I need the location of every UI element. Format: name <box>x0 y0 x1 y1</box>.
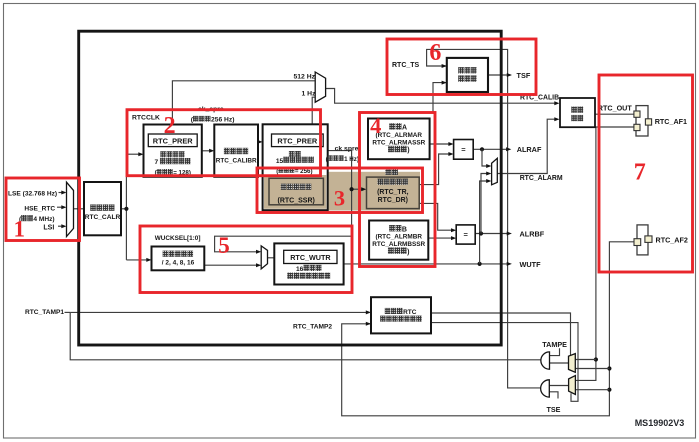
label calendar <box>385 169 391 176</box>
wire RTC_AF1 pin to tamper detectors <box>575 127 634 380</box>
wire TAMPE enable stub <box>550 348 560 355</box>
wire wakeup mux to RTC_WUTR <box>268 257 282 259</box>
svg-text:RTC_ALRMASSR: RTC_ALRMASSR <box>372 139 425 146</box>
wire TAMPE detector output 1 <box>575 359 596 361</box>
red annotation box 2 prescalers <box>127 110 321 176</box>
node ALRBF junction <box>479 231 483 235</box>
wire LSI input arrow <box>58 225 64 227</box>
wire wakeup prescaler to wakeup mux <box>204 264 258 266</box>
wire HSE_RTC input arrow <box>57 206 64 208</box>
red annotation box 3 shadow registers <box>257 168 423 213</box>
TSE gate <box>541 380 550 397</box>
svg-text:(RTC_SSR): (RTC_SSR) <box>278 198 315 205</box>
svg-text:RTC_TS: RTC_TS <box>392 62 420 69</box>
wire 1 Hz tap from sync prescaler <box>312 97 314 124</box>
svg-text:(RTC_TR,: (RTC_TR, <box>377 189 408 196</box>
svg-text:RTC_CALIBR: RTC_CALIBR <box>216 158 257 165</box>
svg-text:RTC_ALARM: RTC_ALARM <box>520 175 563 182</box>
svg-text:2: 2 <box>164 113 176 139</box>
wire coarse calibration to sync prescaler <box>258 141 260 143</box>
svg-text:5: 5 <box>218 233 230 258</box>
wire WUTF flag output <box>344 263 510 265</box>
wire backup registers to TAMPE edge detector <box>431 313 571 356</box>
svg-text:4: 4 <box>370 113 381 138</box>
wire RTC_CALR output RTCCLK distribution <box>121 208 126 210</box>
TAMPE gate <box>541 352 550 369</box>
calendar shadow registers RTC_TR RTC_DR box <box>367 177 420 209</box>
svg-text:=: = <box>461 145 466 154</box>
wire TSE gate output to edge detector <box>549 385 568 387</box>
wire ck_spre distribution <box>215 151 352 252</box>
wire TSF flag output <box>488 74 511 76</box>
clock source mux <box>67 182 74 236</box>
svg-text:RTC_WUTR: RTC_WUTR <box>290 253 331 262</box>
wire TAMPE gate output to edge detector <box>550 362 569 364</box>
svg-text:WUTF: WUTF <box>520 260 542 269</box>
alarm output mux <box>492 158 498 185</box>
svg-text:1 Hz: 1 Hz <box>302 90 317 97</box>
wire RTC_OUT from output control to RTC_AF1 pin <box>595 113 635 115</box>
wire comparator A output ALRAF <box>473 148 509 150</box>
wakeup mux <box>261 246 267 269</box>
pin RTC_AF2 <box>637 225 648 255</box>
node ALRAF junction <box>480 147 484 151</box>
svg-text:LSE (32.768 Hz): LSE (32.768 Hz) <box>8 190 57 197</box>
wire LSE input arrow <box>59 192 65 194</box>
svg-text:(RTC_ALRMAR: (RTC_ALRMAR <box>376 132 423 139</box>
comparator B <box>456 225 475 244</box>
svg-text:A: A <box>402 125 407 132</box>
wire TSE detector output 2 <box>575 389 609 391</box>
svg-text:TSF: TSF <box>517 71 531 80</box>
timestamp register box <box>447 58 488 92</box>
TSE edge detector mux <box>569 376 576 395</box>
svg-text:RTC_AF1: RTC_AF1 <box>655 117 687 126</box>
svg-text:ck spre: ck spre <box>335 145 359 152</box>
wakeup auto-reload RTC_WUTR box <box>274 243 343 284</box>
wire WUTF to alarm output mux <box>480 181 490 264</box>
wire ALRBF to alarm output mux <box>481 174 489 234</box>
wire RTC_CALIB from calib mux to output control <box>326 89 557 104</box>
svg-text:(RTC_ALRMBR: (RTC_ALRMBR <box>375 234 422 241</box>
wire async prescaler to coarse calibration <box>202 150 212 152</box>
wire 512 Hz tap from async prescaler <box>172 81 314 125</box>
alarm B registers box <box>369 221 428 260</box>
wire TSE enable stub <box>549 392 558 399</box>
sync prescaler box <box>263 124 328 210</box>
svg-text:RTC: RTC <box>403 309 417 316</box>
svg-text:RTC_TAMP1: RTC_TAMP1 <box>25 309 64 316</box>
wire RTC_TAMP2 path <box>342 242 635 416</box>
svg-text:6: 6 <box>429 40 441 66</box>
calib output mux 512Hz/1Hz <box>315 72 325 102</box>
node junction on RTC_AF2 line at TSE detector output <box>607 388 611 392</box>
red annotation box 5 wakeup <box>140 226 352 293</box>
node junction on RTC_AF2 line at TAMPE detector output <box>607 366 611 370</box>
node junction tamper line at TAMPE detector output <box>594 357 598 361</box>
svg-text:1 Hz): 1 Hz) <box>344 156 359 163</box>
async prescaler box <box>144 125 202 177</box>
wire ALRAF to alarm output mux <box>482 149 489 166</box>
wire clock mux to RTC_CALR <box>74 208 85 210</box>
svg-text:3: 3 <box>334 185 345 210</box>
TAMPE edge detector mux <box>569 354 576 373</box>
svg-text:ALRBF: ALRBF <box>520 230 545 239</box>
shadow register RTC_SSR box <box>269 178 323 205</box>
wire RTC_TAMP1 into backup registers <box>70 311 368 313</box>
wire calendar to comparator A <box>419 154 451 185</box>
svg-text:ALRAF: ALRAF <box>517 145 542 154</box>
svg-text:MS19902V3: MS19902V3 <box>635 418 685 428</box>
svg-text:1: 1 <box>14 217 26 242</box>
RTC block thick border <box>79 31 502 345</box>
wire RTC_TS / timestamp input <box>427 49 541 388</box>
wire calendar to comparator B <box>419 203 454 230</box>
svg-text:TSE: TSE <box>547 405 561 414</box>
coarse calibration RTC_CALIBR box <box>214 125 258 177</box>
output control box <box>560 98 595 127</box>
svg-text:RTC_TAMP2: RTC_TAMP2 <box>293 323 332 330</box>
wire ck_spre into calendar shadow registers <box>352 188 364 190</box>
red annotation box 6 timestamp <box>387 39 536 95</box>
svg-text:=: = <box>464 230 469 239</box>
node RTCCLK junction <box>124 207 128 211</box>
svg-text:RTC_OUT: RTC_OUT <box>598 103 633 112</box>
svg-text:/ 2, 4, 8, 16: / 2, 4, 8, 16 <box>162 260 195 267</box>
pin RTC_AF1 <box>636 106 648 136</box>
svg-text:512 Hz: 512 Hz <box>294 73 316 80</box>
red annotation box 4 alarms calendar <box>360 113 436 267</box>
wire RTC_TAMP1 to TAMPE gate <box>65 311 71 313</box>
wire RTC_ALARM from mux to output control <box>497 119 557 173</box>
wire comparator B output ALRBF <box>475 233 509 235</box>
wire TAMPE detector output 2 <box>575 368 609 370</box>
wakeup prescaler box <box>152 247 205 271</box>
svg-text:RTC_DR): RTC_DR) <box>378 197 408 204</box>
backup and tamper control registers box <box>371 297 431 333</box>
svg-text:): ) <box>407 249 409 256</box>
svg-text:7: 7 <box>154 159 158 166</box>
svg-text:RTC_CALR: RTC_CALR <box>85 214 121 221</box>
shadow-register tan band (region 3) <box>264 172 420 211</box>
wire alarm B register to comparator B <box>428 237 454 239</box>
svg-text:RTC_AF2: RTC_AF2 <box>656 235 688 244</box>
wire alarm A register to comparator A <box>430 143 452 145</box>
svg-text:): ) <box>407 147 409 154</box>
red annotation box 7 pins <box>599 75 693 272</box>
alarm A registers box <box>368 119 430 160</box>
svg-text:16: 16 <box>296 266 304 273</box>
wire calendar to timestamp register input 2 <box>433 83 446 112</box>
svg-text:RTC_PRER: RTC_PRER <box>277 137 317 146</box>
node ck_spre junction at calendar <box>350 187 354 191</box>
svg-text:HSE_RTC: HSE_RTC <box>24 206 55 213</box>
svg-text:256 Hz): 256 Hz) <box>211 117 234 124</box>
svg-text:RTCCLK: RTCCLK <box>132 115 160 122</box>
smooth calibration RTC_CALR box <box>84 182 121 235</box>
svg-text:B: B <box>402 226 407 233</box>
wire backup registers to TSE edge detector <box>431 323 578 402</box>
svg-text:RTC_ALRMBSSR: RTC_ALRMBSSR <box>372 241 425 248</box>
svg-text:15: 15 <box>276 158 284 165</box>
node WUTF junction to alarm mux <box>478 262 482 266</box>
comparator A <box>454 140 474 160</box>
red annotation box 1 clock sources <box>6 178 80 241</box>
svg-text:4 MHz): 4 MHz) <box>33 216 54 223</box>
svg-text:WUCKSEL[1:0]: WUCKSEL[1:0] <box>155 235 201 242</box>
svg-text:LSI: LSI <box>43 225 54 232</box>
svg-text:TAMPE: TAMPE <box>542 340 567 349</box>
svg-text:7: 7 <box>634 159 646 185</box>
